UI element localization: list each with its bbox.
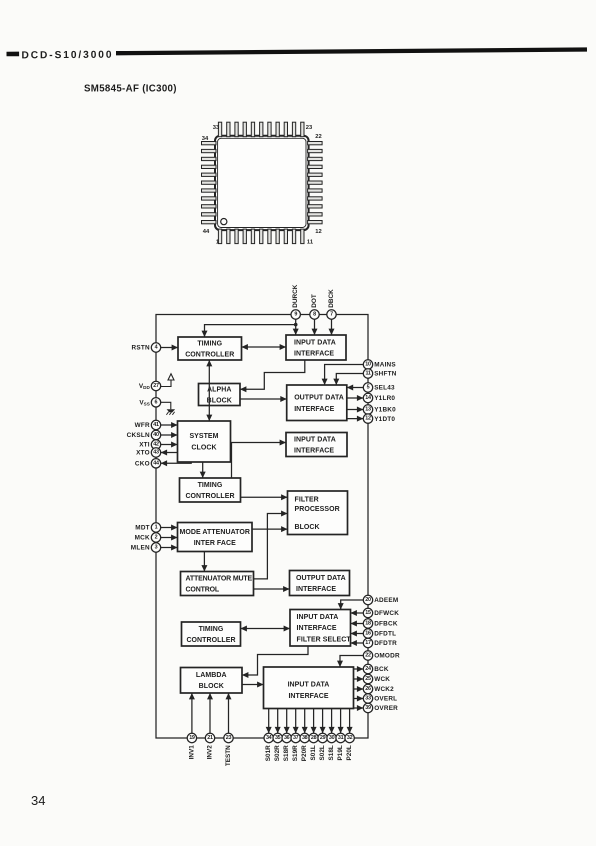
pin 6 VSS	[139, 398, 160, 407]
svg-text:SM5845-AF (IC300): SM5845-AF (IC300)	[84, 84, 177, 95]
svg-text:TIMING: TIMING	[197, 340, 222, 347]
svg-text:38: 38	[302, 735, 308, 741]
wire TIMING CONTROLLER U7 to FILTER PROCESSOR BLOCK	[241, 494, 288, 500]
svg-text:9: 9	[294, 312, 297, 318]
pin 7 DBCK	[327, 289, 336, 319]
pin 39 OVRER	[363, 703, 398, 712]
wire INV2 into LAMBDA BLOCK	[207, 693, 213, 733]
svg-text:CONTROLLER: CONTROLLER	[185, 493, 234, 500]
wire pin 8 DOT into INPUT DATA INTERFACE U2	[312, 319, 318, 335]
svg-text:35: 35	[275, 735, 281, 741]
wire INPUT DATA INTERFACE U15 to S02L	[320, 709, 326, 734]
svg-text:INPUT DATA: INPUT DATA	[297, 614, 339, 621]
svg-text:S01L: S01L	[310, 745, 317, 760]
wire INPUT DATA INTERFACE U15 to P19L	[338, 709, 344, 734]
svg-text:17: 17	[365, 640, 371, 646]
pin 16 DFDTL	[363, 629, 396, 638]
pin 38 P20R	[300, 733, 309, 761]
wire OUTPUT DATA INTERFACE U4 to pin 13 Y1BK0	[347, 407, 364, 413]
pin 19 INV1	[187, 733, 196, 759]
svg-text:S01R: S01R	[265, 745, 272, 761]
svg-text:DFBCK: DFBCK	[374, 621, 398, 628]
svg-text:1: 1	[155, 525, 158, 531]
svg-text:CKSLN: CKSLN	[127, 432, 150, 439]
svg-text:26: 26	[365, 686, 371, 692]
svg-text:DCD-S10/3000: DCD-S10/3000	[21, 50, 113, 62]
pin 37 S19R	[291, 733, 300, 761]
svg-text:Y1DT0: Y1DT0	[374, 416, 395, 423]
svg-text:12: 12	[365, 416, 371, 422]
svg-text:12: 12	[315, 229, 321, 235]
pin 41 WFR	[135, 420, 161, 429]
wire INPUT DATA INTERFACE U15 to pin 33 OVERL	[354, 696, 364, 702]
svg-text:22: 22	[315, 134, 321, 140]
wire INPUT DATA INTERFACE U15 to S18L	[329, 709, 335, 734]
svg-text:SYSTEM: SYSTEM	[189, 433, 218, 440]
svg-text:28: 28	[311, 735, 317, 741]
svg-text:43: 43	[153, 450, 159, 456]
svg-text:INPUT DATA: INPUT DATA	[294, 339, 336, 346]
pin 29 S02L	[318, 733, 327, 760]
wire FILTER SELECT to LAMBDA BLOCK	[242, 646, 308, 678]
pin 33 OVERL	[363, 694, 397, 703]
wire SYSTEM CLOCK to CKO	[161, 460, 192, 466]
svg-text:20: 20	[365, 597, 371, 603]
pin 35 S02R	[273, 733, 282, 761]
wire pin 18 DFBCK into FILTER SELECT	[351, 621, 364, 627]
svg-text:INTERFACE: INTERFACE	[294, 350, 334, 357]
svg-text:INV2: INV2	[207, 745, 214, 760]
svg-text:23: 23	[306, 125, 313, 131]
svg-text:33: 33	[365, 696, 371, 702]
svg-text:8: 8	[313, 312, 316, 318]
wire pin 5 SEL43 into OUTPUT DATA INTERFACE U4	[347, 385, 364, 391]
svg-text:DBCK: DBCK	[328, 289, 335, 308]
wire INPUT DATA INTERFACE U15 to S18R	[284, 709, 290, 734]
pin 22 OMODR	[363, 651, 400, 660]
svg-text:XTI: XTI	[139, 442, 150, 449]
wire INPUT DATA INTERFACE U15 to S02R	[275, 709, 281, 734]
block MODE ATTENUATOR INTERFACE U9	[178, 523, 253, 552]
svg-text:OVERL: OVERL	[374, 696, 397, 703]
svg-text:SHFTN: SHFTN	[374, 371, 397, 378]
svg-text:11: 11	[365, 371, 370, 377]
svg-text:CLOCK: CLOCK	[191, 445, 216, 452]
block OUTPUT DATA INTERFACE U4	[287, 385, 347, 421]
header black square bullet	[6, 46, 587, 62]
pin 27 VDD	[139, 381, 161, 390]
svg-text:BLOCK: BLOCK	[295, 524, 320, 531]
svg-text:22: 22	[365, 653, 371, 659]
IC package bottom pin row (pins 1..11)	[218, 229, 304, 244]
wire RSTN to TIMING CONTROLLER U1	[161, 345, 178, 351]
svg-text:MODE ATTENUATOR: MODE ATTENUATOR	[180, 529, 251, 536]
wire pin 15 DFWCK into FILTER SELECT	[351, 610, 364, 616]
pin 43 XTO	[136, 448, 161, 457]
svg-text:34: 34	[202, 136, 209, 142]
node junction on DURCK line	[294, 323, 298, 327]
svg-text:40: 40	[153, 432, 159, 438]
svg-text:ADEEM: ADEEM	[374, 597, 398, 604]
pin 32 P20L	[345, 733, 354, 760]
svg-text:MDT: MDT	[135, 525, 150, 532]
svg-text:31: 31	[338, 735, 344, 741]
pin 14 Y1LR0	[363, 393, 395, 402]
svg-text:S19R: S19R	[292, 745, 299, 761]
IC package right pin row (pins 22..12)	[308, 142, 323, 224]
wire TIMING CONTROLLER U7 to INPUT DATA INTERFACE U6	[232, 440, 287, 479]
pin 9 DURCK	[291, 284, 300, 319]
svg-text:Y1LR0: Y1LR0	[374, 395, 395, 402]
wire INPUT DATA INTERFACE U15 to pin 24 BCK	[354, 666, 364, 672]
pin 5 SEL43	[363, 383, 395, 392]
svg-text:INPUT DATA: INPUT DATA	[294, 436, 336, 443]
wire TIMING CONTROLLER U12 / FILTER SELECT bus	[241, 626, 291, 632]
svg-text:10: 10	[365, 362, 371, 368]
pin 44 CKO	[135, 459, 161, 468]
svg-text:6: 6	[155, 399, 158, 405]
svg-text:3: 3	[155, 545, 158, 551]
wire XTI into SYSTEM CLOCK	[161, 442, 178, 448]
block OUTPUT DATA INTERFACE U11	[290, 571, 350, 596]
svg-text:24: 24	[365, 666, 371, 672]
wire TIMING CONTROLLER U1 / SYSTEM CLOCK bus	[206, 360, 212, 421]
svg-text:5: 5	[367, 385, 370, 391]
svg-text:ALPHA: ALPHA	[207, 386, 231, 393]
pin 34 S01R	[264, 733, 273, 761]
pin 18 DFBCK	[363, 619, 398, 628]
svg-text:19: 19	[189, 735, 195, 741]
svg-text:30: 30	[329, 735, 335, 741]
wire INPUT DATA INTERFACE U15 to S01L	[311, 709, 317, 734]
pin 8 DOT	[310, 294, 319, 319]
pin 31 P19L	[336, 733, 345, 760]
svg-text:21: 21	[207, 735, 213, 741]
svg-text:INPUT DATA: INPUT DATA	[288, 681, 330, 688]
pin 12 Y1DT0	[363, 414, 395, 423]
wire pin 11 SHFTN into OUTPUT DATA INTERFACE U4	[333, 374, 363, 386]
wire pin 16 DFDTL into FILTER SELECT	[351, 631, 364, 637]
pin 28 S01L	[309, 733, 318, 760]
block INPUT DATA INTERFACE U15	[264, 667, 354, 709]
svg-text:37: 37	[293, 735, 299, 741]
block INPUT DATA INTERFACE U6	[286, 433, 347, 457]
svg-text:44: 44	[153, 460, 159, 466]
wire INPUT DATA INTERFACE U15 to P20R	[302, 709, 308, 734]
svg-text:VSS: VSS	[139, 400, 149, 407]
svg-text:FILTER SELECT: FILTER SELECT	[297, 637, 352, 644]
svg-text:OVRER: OVRER	[374, 705, 398, 712]
svg-text:DURCK: DURCK	[292, 284, 299, 307]
svg-text:11: 11	[307, 240, 314, 246]
block INPUT DATA INTERFACE FILTER SELECT U13	[290, 610, 351, 647]
wire pin 22 OMODR into INPUT DATA INTERFACE U15	[337, 656, 363, 668]
svg-text:2: 2	[155, 535, 158, 541]
svg-text:OUTPUT DATA: OUTPUT DATA	[294, 394, 344, 401]
svg-text:39: 39	[365, 705, 371, 711]
svg-text:7: 7	[330, 312, 333, 318]
svg-text:INV1: INV1	[188, 745, 195, 760]
svg-text:WCK2: WCK2	[374, 686, 394, 693]
svg-text:P20R: P20R	[301, 745, 308, 761]
wire INPUT DATA INTERFACE U15 to S01R	[266, 709, 272, 734]
wire TESTN into LAMBDA BLOCK	[226, 693, 232, 733]
svg-text:OMODR: OMODR	[374, 653, 400, 660]
svg-text:CKO: CKO	[135, 461, 150, 468]
wire DURCK branch to TIMING CONTROLLER U1	[202, 325, 296, 337]
svg-text:INTERFACE: INTERFACE	[288, 693, 328, 700]
svg-text:33: 33	[213, 125, 220, 131]
svg-text:16: 16	[365, 631, 371, 637]
pin 3 MLEN	[131, 543, 161, 552]
pin 24 BCK	[363, 664, 389, 673]
IC package SM5845-AF QFP-44 top view	[215, 136, 309, 230]
pin 40 CKSLN	[127, 430, 161, 439]
wire OUTPUT DATA INTERFACE U4 to pin 14 Y1LR0	[347, 395, 364, 401]
svg-text:TESTN: TESTN	[225, 745, 232, 766]
svg-text:TIMING: TIMING	[199, 626, 224, 633]
svg-text:CONTROLLER: CONTROLLER	[186, 637, 235, 644]
svg-text:42: 42	[153, 442, 159, 448]
svg-text:MAINS: MAINS	[374, 362, 396, 369]
wire MDT into MODE ATTENUATOR INTERFACE	[161, 525, 178, 531]
wire SYSTEM CLOCK to XTO	[161, 450, 178, 456]
wire LAMBDA BLOCK to INPUT DATA INTERFACE U15	[242, 682, 264, 688]
pin 30 S18L	[327, 733, 336, 760]
power symbol VDD triangle	[161, 374, 174, 387]
svg-text:WFR: WFR	[135, 422, 150, 429]
svg-text:SEL43: SEL43	[374, 385, 395, 392]
wire ALPHA BLOCK to OUTPUT DATA INTERFACE U4	[240, 396, 287, 402]
pin 20 ADEEM	[363, 595, 398, 604]
svg-text:INTERFACE: INTERFACE	[294, 406, 334, 413]
svg-text:CONTROLLER: CONTROLLER	[185, 351, 234, 358]
svg-text:MCK: MCK	[135, 535, 150, 542]
svg-text:S18L: S18L	[328, 745, 335, 760]
wire INPUT DATA INTERFACE U15 to pin 25 WCK	[354, 676, 364, 682]
svg-text:INTERFACE: INTERFACE	[297, 625, 337, 632]
svg-text:WCK: WCK	[374, 676, 390, 683]
wire INPUT DATA INTERFACE U15 to pin 39 OVRER	[354, 705, 364, 711]
svg-text:S02R: S02R	[274, 745, 281, 761]
svg-text:DFDTL: DFDTL	[374, 631, 396, 638]
wire SYSTEM CLOCK to TIMING CONTROLLER U7	[200, 462, 206, 478]
wire MODE ATTENUATOR INTERFACE to ATTENUATOR MUTE CONTROL	[201, 552, 207, 572]
svg-text:INTERFACE: INTERFACE	[296, 586, 336, 593]
ground symbol VSS	[161, 402, 175, 415]
wire INPUT DATA INTERFACE U15 to S19R	[293, 709, 299, 734]
svg-text:RSTN: RSTN	[132, 345, 150, 352]
wire CKSLN into SYSTEM CLOCK	[161, 432, 178, 438]
wire TIMING CONTROLLER U1 / INPUT DATA INTERFACE U2 bus	[242, 344, 287, 350]
block LAMBDA BLOCK U14	[181, 668, 243, 694]
svg-text:P19L: P19L	[337, 745, 344, 760]
wire pin 7 DBCK into INPUT DATA INTERFACE U2	[329, 319, 335, 335]
svg-text:CONTROL: CONTROL	[186, 586, 220, 593]
svg-text:PROCESSOR: PROCESSOR	[295, 506, 340, 513]
pin 1 MDT	[135, 523, 160, 532]
wire pin 20 ADEEM into INPUT DATA INTERFACE FILTER SELECT	[338, 600, 364, 610]
svg-text:MLEN: MLEN	[131, 545, 150, 552]
wire INPUT DATA INTERFACE U2 to ALPHA BLOCK	[240, 360, 305, 392]
wire pin 9 DURCK into INPUT DATA INTERFACE U2	[293, 319, 299, 335]
svg-text:44: 44	[203, 229, 210, 235]
wire ATTENUATOR MUTE CONTROL to FILTER PROCESSOR BLOCK	[254, 511, 288, 579]
svg-text:TIMING: TIMING	[198, 482, 223, 489]
wire INV1 into LAMBDA BLOCK	[189, 693, 195, 733]
svg-text:XTO: XTO	[136, 450, 150, 457]
pin 10 MAINS	[363, 360, 396, 369]
block TIMING CONTROLLER U7	[180, 478, 241, 502]
pin 21 INV2	[205, 733, 214, 759]
wire MCK into MODE ATTENUATOR INTERFACE	[161, 535, 178, 541]
pin 36 S18R	[282, 733, 291, 761]
block SYSTEM CLOCK U5	[178, 421, 231, 462]
svg-text:S02L: S02L	[319, 745, 326, 760]
IC package top pin row (pins 33..23)	[218, 122, 304, 137]
svg-text:FILTER: FILTER	[295, 497, 319, 504]
pin 17 DFDTR	[363, 638, 397, 647]
wire MODE ATTENUATOR INTERFACE to FILTER PROCESSOR BLOCK	[252, 526, 288, 532]
wire OUTPUT DATA INTERFACE U4 to pin 12 Y1DT0	[347, 416, 364, 422]
svg-text:LAMBDA: LAMBDA	[196, 672, 227, 679]
pin 2 MCK	[135, 533, 161, 542]
wire WFR into SYSTEM CLOCK	[161, 422, 178, 428]
wire INPUT DATA INTERFACE U15 to P20L	[347, 709, 353, 734]
svg-text:15: 15	[365, 610, 371, 616]
svg-text:36: 36	[284, 735, 290, 741]
svg-text:29: 29	[320, 735, 326, 741]
svg-text:P20L: P20L	[346, 745, 353, 760]
wire pin 17 DFDTR into FILTER SELECT	[351, 640, 364, 646]
svg-text:23: 23	[226, 735, 232, 741]
svg-text:INTER FACE: INTER FACE	[194, 540, 236, 547]
header rule bar	[116, 47, 587, 55]
svg-text:INTERFACE: INTERFACE	[294, 447, 334, 454]
svg-text:4: 4	[155, 345, 158, 351]
pin 11 SHFTN	[363, 369, 396, 378]
svg-text:S18R: S18R	[283, 745, 290, 761]
block FILTER PROCESSOR BLOCK U8	[288, 491, 348, 535]
pin 25 WCK	[363, 674, 390, 683]
pin 15 DFWCK	[363, 608, 399, 617]
wire ATTENUATOR MUTE CONTROL to OUTPUT DATA INTERFACE U11	[254, 586, 290, 592]
wire MLEN into MODE ATTENUATOR INTERFACE	[161, 545, 178, 551]
svg-text:14: 14	[365, 395, 371, 401]
wire pin 10 MAINS into OUTPUT DATA INTERFACE U4	[322, 365, 364, 386]
svg-text:34: 34	[31, 793, 45, 808]
svg-text:BLOCK: BLOCK	[199, 683, 224, 690]
svg-text:BLOCK: BLOCK	[207, 397, 232, 404]
svg-text:Y1BK0: Y1BK0	[374, 407, 396, 414]
block ATTENUATOR MUTE CONTROL U10	[181, 572, 254, 596]
svg-text:32: 32	[347, 735, 353, 741]
IC boundary rectangle	[156, 315, 368, 739]
pin 23 TESTN	[224, 733, 233, 766]
IC package left pin row (pins 34..44)	[202, 142, 217, 224]
block ALPHA BLOCK U3	[199, 384, 241, 406]
svg-text:25: 25	[365, 676, 371, 682]
pin 13 Y1BK0	[363, 405, 396, 414]
block INPUT DATA INTERFACE U2	[286, 335, 346, 360]
svg-text:34: 34	[266, 735, 272, 741]
svg-text:18: 18	[365, 621, 371, 627]
wire INPUT DATA INTERFACE U15 to pin 26 WCK2	[354, 686, 364, 692]
svg-text:OUTPUT DATA: OUTPUT DATA	[296, 575, 346, 582]
svg-text:41: 41	[153, 422, 159, 428]
block TIMING CONTROLLER U12	[182, 622, 241, 646]
block TIMING CONTROLLER U1	[178, 337, 242, 360]
svg-text:DFDTR: DFDTR	[374, 640, 397, 647]
svg-text:ATTENUATOR MUTE: ATTENUATOR MUTE	[186, 575, 253, 582]
svg-text:DFWCK: DFWCK	[374, 610, 399, 617]
IC package pin-1 index dot	[221, 219, 227, 225]
pin 4 RSTN	[132, 343, 161, 352]
svg-text:DOT: DOT	[311, 294, 318, 308]
svg-text:BCK: BCK	[374, 666, 389, 673]
svg-text:13: 13	[365, 407, 371, 413]
svg-text:VDD: VDD	[139, 383, 151, 390]
svg-text:27: 27	[153, 383, 159, 389]
pin 26 WCK2	[363, 684, 394, 693]
pin 42 XTI	[139, 440, 161, 449]
